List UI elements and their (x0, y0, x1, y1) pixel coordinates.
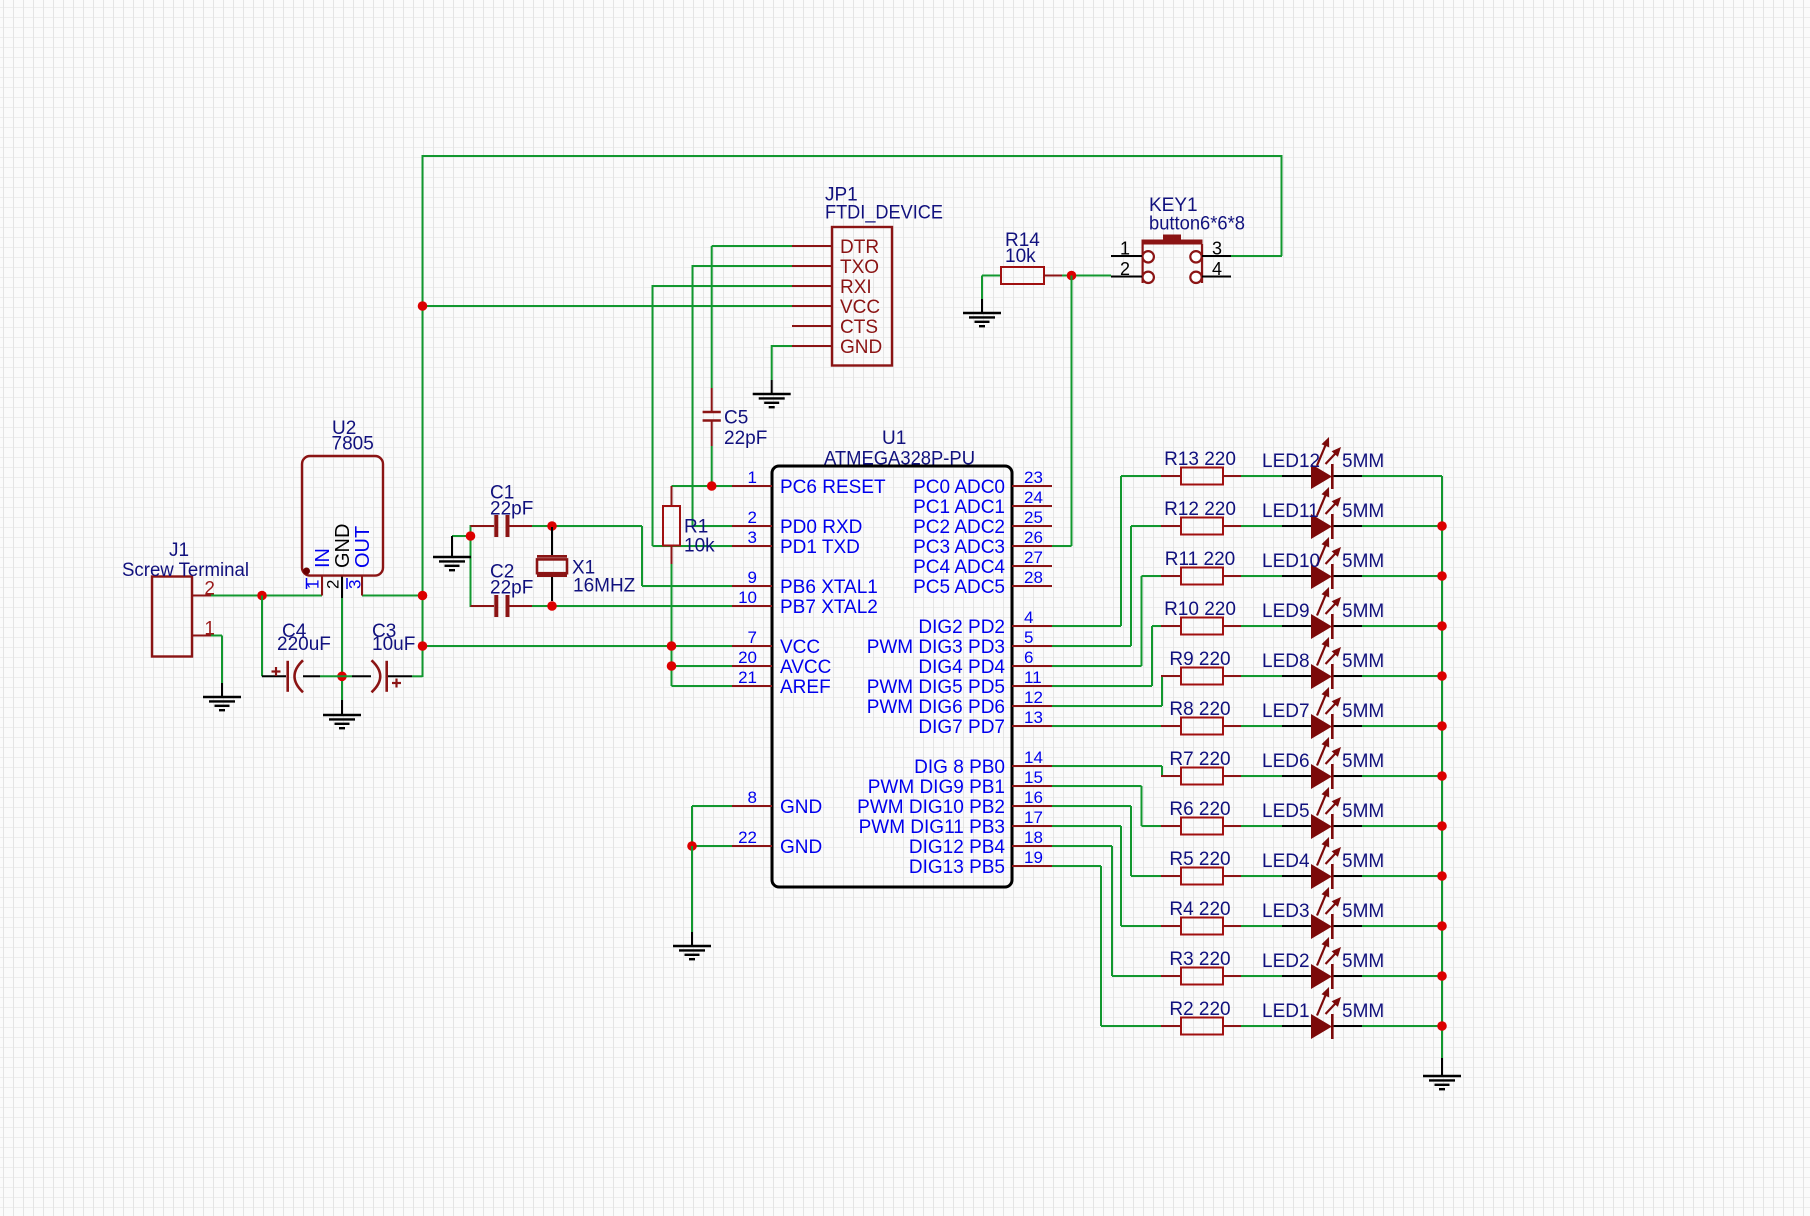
svg-text:R1: R1 (684, 517, 708, 538)
svg-text:LED9: LED9 (1262, 601, 1310, 622)
svg-text:R13 220: R13 220 (1164, 449, 1236, 470)
svg-text:LED10: LED10 (1262, 551, 1320, 572)
svg-text:10uF: 10uF (372, 634, 415, 655)
ground J1 (203, 697, 241, 710)
svg-text:R4 220: R4 220 (1169, 899, 1230, 920)
LED LED1 5MM (1262, 987, 1384, 1039)
svg-text:17: 17 (1024, 808, 1043, 827)
wire KEY1 pin3 to top bus (1231, 255, 1282, 257)
svg-text:4: 4 (1212, 259, 1222, 279)
svg-text:PD0 RXD: PD0 RXD (780, 517, 862, 538)
svg-text:5MM: 5MM (1342, 751, 1384, 772)
wire R14 ground stem (981, 276, 983, 314)
wire R11 to LED10 (1241, 575, 1282, 577)
svg-text:3: 3 (748, 528, 757, 547)
svg-text:1: 1 (1120, 239, 1130, 259)
pin 12 PWM DIG6 PD6 (867, 688, 1052, 718)
node bus junction LED8 (1437, 671, 1447, 681)
svg-text:LED6: LED6 (1262, 751, 1310, 772)
node C2-X1 junction (547, 601, 557, 611)
svg-text:PWM DIG5 PD5: PWM DIG5 PD5 (867, 677, 1005, 698)
wire C4 branch (262, 596, 286, 677)
svg-text:PWM DIG6 PD6: PWM DIG6 PD6 (867, 697, 1005, 718)
capacitor C2 22pF (471, 562, 534, 618)
svg-text:7: 7 (748, 628, 757, 647)
wire R14 to ground (982, 275, 1001, 277)
ground FTDI (753, 394, 791, 407)
wire TXO to PD0 (693, 265, 793, 526)
capacitor C4 220uF (272, 621, 331, 692)
wire KEY1 to PC3 (1052, 276, 1072, 547)
svg-text:LED5: LED5 (1262, 801, 1310, 822)
node C1-X1 junction (547, 521, 557, 531)
resistor R2 220 (1161, 999, 1241, 1035)
svg-text:VCC: VCC (840, 297, 880, 318)
pin 4 DIG2 PD2 (918, 608, 1052, 638)
svg-text:5: 5 (1024, 628, 1033, 647)
svg-text:1: 1 (748, 468, 757, 487)
svg-text:5MM: 5MM (1342, 851, 1384, 872)
svg-text:VCC: VCC (780, 637, 820, 658)
wire GND net to C3 (352, 675, 371, 677)
svg-text:12: 12 (1024, 688, 1043, 707)
ground U1 (673, 946, 711, 959)
wire R12 to LED11 (1241, 525, 1282, 527)
svg-text:LED8: LED8 (1262, 651, 1310, 672)
wire C1 to XTAL1 (532, 526, 732, 586)
pin 28 PC5 ADC5 (913, 568, 1052, 598)
svg-text:10k: 10k (684, 536, 715, 557)
svg-text:GND: GND (840, 337, 882, 358)
pin 8 GND (732, 788, 822, 818)
svg-text:PB6 XTAL1: PB6 XTAL1 (780, 577, 878, 598)
node bus junction LED1 (1437, 1021, 1447, 1031)
capacitor C5 22pF (703, 388, 768, 449)
wire C1-C2 left side (470, 525, 472, 607)
wire RESET row (672, 485, 733, 487)
resistor R13 220 (1161, 449, 1241, 485)
svg-text:5MM: 5MM (1342, 451, 1384, 472)
resistor R6 220 (1161, 799, 1241, 835)
header JP1 FTDI_DEVICE (792, 185, 943, 366)
svg-text:R9 220: R9 220 (1169, 649, 1230, 670)
svg-text:DIG13 PB5: DIG13 PB5 (909, 857, 1005, 878)
wire RXI to PD1 (653, 285, 793, 546)
svg-text:CTS: CTS (840, 317, 878, 338)
pin 22 GND (732, 828, 822, 858)
svg-text:19: 19 (1024, 848, 1043, 867)
node bus junction LED6 (1437, 771, 1447, 781)
wire GND pin8 (692, 806, 732, 846)
svg-text:R8 220: R8 220 (1169, 699, 1230, 720)
wire J1 pin2 to U2 IN (211, 595, 322, 597)
svg-text:220uF: 220uF (277, 634, 331, 655)
wire pin5 to R12 (1052, 526, 1161, 646)
resistor R4 220 (1161, 899, 1241, 935)
svg-text:3: 3 (1212, 239, 1222, 259)
wire U2 OUT to VCC net (362, 595, 423, 597)
svg-text:PC0 ADC0: PC0 ADC0 (913, 477, 1005, 498)
svg-text:PWM DIG9 PB1: PWM DIG9 PB1 (868, 777, 1005, 798)
regulator U2 7805 (302, 418, 383, 596)
crystal X1 16MHZ (537, 527, 636, 601)
resistor R5 220 (1161, 849, 1241, 885)
svg-text:1: 1 (204, 619, 215, 640)
pin 24 PC1 ADC1 (913, 488, 1052, 518)
wire to crystal ground (452, 536, 471, 557)
node C1-C2 gnd junction (466, 531, 476, 541)
svg-text:PD1 TXD: PD1 TXD (780, 537, 860, 558)
pin 13 DIG7 PD7 (918, 708, 1052, 738)
svg-text:21: 21 (738, 668, 757, 687)
svg-text:27: 27 (1024, 548, 1043, 567)
svg-text:5MM: 5MM (1342, 801, 1384, 822)
svg-text:LED12: LED12 (1262, 451, 1320, 472)
wire pin17 to R4 (1052, 826, 1161, 926)
svg-text:LED7: LED7 (1262, 701, 1310, 722)
ground regulator (323, 715, 361, 728)
svg-text:LED2: LED2 (1262, 951, 1310, 972)
pin 19 DIG13 PB5 (909, 848, 1052, 878)
pin 27 PC4 ADC4 (913, 548, 1052, 578)
wire R13 to LED12 (1241, 475, 1282, 477)
LED LED8 5MM (1262, 637, 1384, 689)
node bus junction LED11 (1437, 521, 1447, 531)
svg-text:5MM: 5MM (1342, 651, 1384, 672)
svg-text:10: 10 (738, 588, 757, 607)
wire VCC row to pin7 (423, 645, 733, 647)
pushbutton KEY1 button6*6*8 (1111, 195, 1245, 283)
svg-text:GND: GND (780, 837, 822, 858)
pin 18 DIG12 PB4 (909, 828, 1052, 858)
pin 16 PWM DIG10 PB2 (857, 788, 1052, 818)
node RESET junction (707, 481, 717, 491)
svg-text:18: 18 (1024, 828, 1043, 847)
resistor R14 10k (982, 230, 1062, 284)
wire pin15 to R6 (1052, 786, 1161, 826)
wire R3 to LED2 (1241, 975, 1282, 977)
svg-text:5MM: 5MM (1342, 701, 1384, 722)
LED LED10 5MM (1262, 537, 1384, 589)
wire R10 to LED9 (1241, 625, 1282, 627)
svg-text:DIG 8 PB0: DIG 8 PB0 (914, 757, 1005, 778)
wire R4 to LED3 (1241, 925, 1282, 927)
svg-text:PC3 ADC3: PC3 ADC3 (913, 537, 1005, 558)
pin 1 PC6 RESET (732, 468, 886, 498)
svg-text:PWM DIG11 PB3: PWM DIG11 PB3 (859, 817, 1005, 838)
wire FTDI VCC row (423, 305, 793, 307)
wire C2 to XTAL2 (532, 605, 732, 607)
svg-text:2: 2 (1120, 259, 1130, 279)
svg-text:C5: C5 (724, 408, 748, 429)
resistor R11 220 (1161, 549, 1241, 585)
svg-text:25: 25 (1024, 508, 1043, 527)
LED LED3 5MM (1262, 887, 1384, 939)
svg-text:14: 14 (1024, 748, 1043, 767)
pin 20 AVCC (732, 648, 831, 678)
pin 2 PD0 RXD (732, 508, 862, 538)
node input junction (257, 591, 267, 601)
svg-text:10k: 10k (1005, 246, 1036, 267)
svg-text:PB7 XTAL2: PB7 XTAL2 (780, 597, 878, 618)
node VCC branch junction (418, 641, 428, 651)
node GND-caps junction (337, 672, 347, 682)
node GND junction (687, 841, 697, 851)
IC U1 ATMEGA328P-PU (772, 428, 1012, 887)
svg-text:DTR: DTR (840, 237, 879, 258)
wire pin13 to R8 (1052, 725, 1161, 727)
LED LED4 5MM (1262, 837, 1384, 889)
svg-text:GND: GND (332, 524, 354, 568)
node VCC-pin7 junction (667, 641, 677, 651)
resistor R7 220 (1161, 749, 1241, 785)
resistor R1 10k (663, 486, 715, 564)
svg-text:5MM: 5MM (1342, 601, 1384, 622)
pin 17 PWM DIG11 PB3 (859, 808, 1052, 838)
svg-text:13: 13 (1024, 708, 1043, 727)
svg-text:2: 2 (204, 579, 215, 600)
svg-text:15: 15 (1024, 768, 1043, 787)
svg-text:24: 24 (1024, 488, 1043, 507)
wire R2 to LED1 (1241, 1025, 1282, 1027)
wire pin6 to R11 (1052, 576, 1161, 666)
svg-text:22pF: 22pF (724, 428, 767, 449)
pin 25 PC2 ADC2 (913, 508, 1052, 538)
LED LED5 5MM (1262, 787, 1384, 839)
node bus junction LED2 (1437, 971, 1447, 981)
node bus junction LED7 (1437, 721, 1447, 731)
wire LED cathode bus (1362, 476, 1442, 1058)
ground R14 (963, 313, 1001, 326)
svg-text:20: 20 (738, 648, 757, 667)
LED LED6 5MM (1262, 737, 1384, 789)
node AVCC junction (667, 661, 677, 671)
node bus junction LED3 (1437, 921, 1447, 931)
svg-text:PC2 ADC2: PC2 ADC2 (913, 517, 1005, 538)
svg-text:5MM: 5MM (1342, 551, 1384, 572)
pin 7 VCC (732, 628, 820, 658)
wire R5 to LED4 (1241, 875, 1282, 877)
svg-text:PC5 ADC5: PC5 ADC5 (913, 577, 1005, 598)
svg-text:PWM DIG10 PB2: PWM DIG10 PB2 (857, 797, 1005, 818)
wire C3 right side (388, 675, 423, 677)
wire R9 to LED8 (1241, 675, 1282, 677)
svg-text:9: 9 (748, 568, 757, 587)
svg-text:button6*6*8: button6*6*8 (1149, 214, 1245, 235)
svg-text:R7 220: R7 220 (1169, 749, 1230, 770)
wire U2 GND down (341, 576, 343, 715)
wire J1 pin1 to ground (211, 636, 222, 698)
pin 23 PC0 ADC0 (913, 468, 1052, 498)
wire pin4 to R13 (1052, 476, 1161, 626)
svg-text:23: 23 (1024, 468, 1043, 487)
svg-text:3: 3 (346, 580, 365, 589)
svg-text:26: 26 (1024, 528, 1043, 547)
svg-text:R3 220: R3 220 (1169, 949, 1230, 970)
wire R6 to LED5 (1241, 825, 1282, 827)
svg-text:22pF: 22pF (490, 499, 533, 520)
svg-text:22pF: 22pF (490, 578, 533, 599)
wire R7 to LED6 (1241, 775, 1282, 777)
svg-text:R6 220: R6 220 (1169, 799, 1230, 820)
svg-text:8: 8 (748, 788, 757, 807)
wire pin18 to R3 (1052, 846, 1161, 976)
wire DTR to C5 (712, 246, 792, 388)
wire GND pin22 (692, 845, 732, 847)
svg-text:IN: IN (312, 548, 334, 568)
svg-text:16MHZ: 16MHZ (573, 576, 636, 597)
svg-text:OUT: OUT (352, 526, 374, 568)
wire pin12 to R9 (1052, 676, 1162, 706)
svg-text:LED4: LED4 (1262, 851, 1310, 872)
svg-text:U1: U1 (882, 428, 906, 449)
svg-text:R11 220: R11 220 (1165, 549, 1235, 570)
LED LED11 5MM (1262, 487, 1384, 539)
node bus junction LED9 (1437, 621, 1447, 631)
svg-text:PC6 RESET: PC6 RESET (780, 477, 886, 498)
pin 21 AREF (732, 668, 831, 698)
svg-text:AVCC: AVCC (780, 657, 831, 678)
resistor R8 220 (1161, 699, 1241, 735)
resistor R3 220 (1161, 949, 1241, 985)
pin 5 PWM DIG3 PD3 (867, 628, 1052, 658)
svg-text:R10 220: R10 220 (1164, 599, 1236, 620)
pin 26 PC3 ADC3 (913, 528, 1052, 558)
wire pin19 to R2 (1052, 866, 1161, 1026)
pin 9 PB6 XTAL1 (732, 568, 878, 598)
wire VCC top bus (423, 155, 1282, 677)
svg-text:LED11: LED11 (1262, 501, 1319, 522)
ground LED bus (1423, 1076, 1461, 1089)
node VCC-FTDI junction (418, 301, 428, 311)
wire AVCC branch (672, 665, 733, 667)
svg-text:AREF: AREF (780, 677, 831, 698)
svg-text:5MM: 5MM (1342, 951, 1384, 972)
svg-text:RXI: RXI (840, 277, 872, 298)
svg-text:28: 28 (1024, 568, 1043, 587)
LED LED12 5MM (1262, 437, 1384, 489)
node bus junction LED5 (1437, 821, 1447, 831)
svg-text:GND: GND (780, 797, 822, 818)
capacitor C1 22pF (471, 483, 534, 538)
svg-text:FTDI_DEVICE: FTDI_DEVICE (825, 203, 943, 224)
svg-text:R5 220: R5 220 (1169, 849, 1230, 870)
ground crystal caps (433, 557, 471, 570)
wire chip ground stem (691, 846, 693, 946)
LED LED2 5MM (1262, 937, 1384, 989)
svg-text:DIG12 PB4: DIG12 PB4 (909, 837, 1006, 858)
node KEY1 junction (1067, 271, 1077, 281)
pin 11 PWM DIG5 PD5 (867, 668, 1052, 698)
svg-text:6: 6 (1024, 648, 1033, 667)
svg-text:16: 16 (1024, 788, 1043, 807)
svg-text:5MM: 5MM (1342, 501, 1384, 522)
connector J1 Screw Terminal (122, 540, 249, 657)
node bus junction LED4 (1437, 871, 1447, 881)
wire R8 to LED7 (1241, 725, 1282, 727)
pin 14 DIG 8 PB0 (914, 748, 1052, 778)
pin 10 PB7 XTAL2 (732, 588, 878, 618)
svg-text:DIG4 PD4: DIG4 PD4 (918, 657, 1005, 678)
svg-text:R12 220: R12 220 (1164, 499, 1236, 520)
svg-text:R2 220: R2 220 (1169, 999, 1230, 1020)
svg-text:PWM DIG3 PD3: PWM DIG3 PD3 (867, 637, 1005, 658)
capacitor C3 10uF (372, 621, 416, 692)
svg-text:PC4 ADC4: PC4 ADC4 (913, 557, 1005, 578)
svg-text:5MM: 5MM (1342, 901, 1384, 922)
svg-text:LED3: LED3 (1262, 901, 1310, 922)
svg-text:DIG2 PD2: DIG2 PD2 (918, 617, 1005, 638)
svg-text:J1: J1 (169, 540, 189, 561)
wire bus ground stem (1441, 1058, 1443, 1076)
pin 6 DIG4 PD4 (918, 648, 1052, 678)
svg-text:5MM: 5MM (1342, 1001, 1384, 1022)
svg-text:7805: 7805 (332, 434, 374, 455)
wire C4 right to GND net (303, 675, 352, 677)
svg-text:2: 2 (748, 508, 757, 527)
pin 15 PWM DIG9 PB1 (868, 768, 1052, 798)
svg-text:2: 2 (324, 580, 343, 589)
LED LED7 5MM (1262, 687, 1384, 739)
wire FTDI GND (772, 345, 792, 394)
node OUT junction (418, 591, 428, 601)
wire R14 to KEY1 (1062, 275, 1111, 277)
svg-text:11: 11 (1024, 668, 1042, 687)
svg-text:Screw Terminal: Screw Terminal (122, 560, 249, 581)
svg-text:22: 22 (738, 828, 757, 847)
svg-text:DIG7 PD7: DIG7 PD7 (918, 717, 1005, 738)
svg-text:ATMEGA328P-PU: ATMEGA328P-PU (824, 449, 975, 470)
wire pin14 to R7 (1052, 766, 1162, 776)
LED LED9 5MM (1262, 587, 1384, 639)
svg-text:PC1 ADC1: PC1 ADC1 (913, 497, 1005, 518)
svg-text:LED1: LED1 (1262, 1001, 1310, 1022)
resistor R12 220 (1161, 499, 1241, 535)
wire pin16 to R5 (1052, 806, 1161, 876)
svg-text:TXO: TXO (840, 257, 879, 278)
resistor R9 220 (1161, 649, 1241, 685)
wire R1 to VCC net (672, 564, 733, 686)
svg-text:4: 4 (1024, 608, 1033, 627)
wire pin11 to R10 (1052, 626, 1161, 686)
wire C5 to RESET (711, 446, 713, 486)
pin 3 PD1 TXD (732, 528, 860, 558)
node bus junction LED10 (1437, 571, 1447, 581)
resistor R10 220 (1161, 599, 1241, 635)
